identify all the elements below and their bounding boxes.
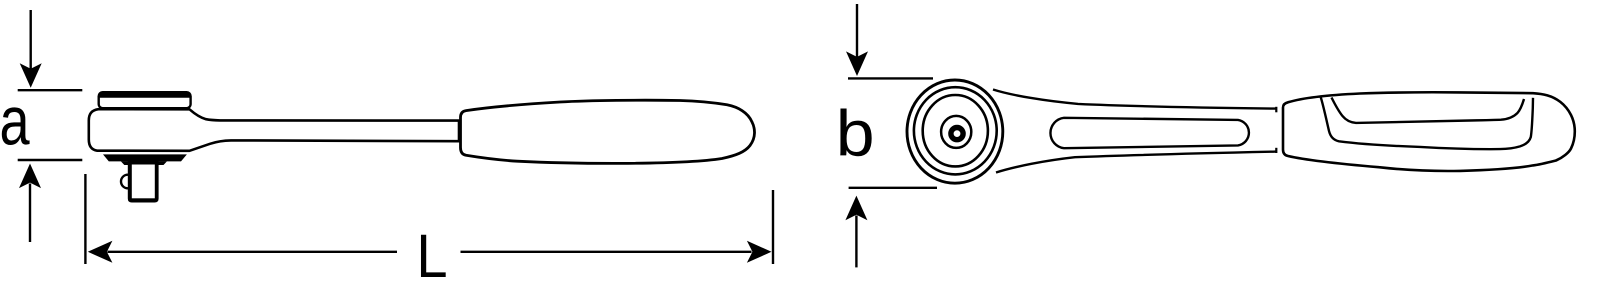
svg-text:b: b bbox=[836, 98, 875, 170]
svg-text:a: a bbox=[0, 83, 30, 160]
svg-text:L: L bbox=[416, 223, 447, 291]
